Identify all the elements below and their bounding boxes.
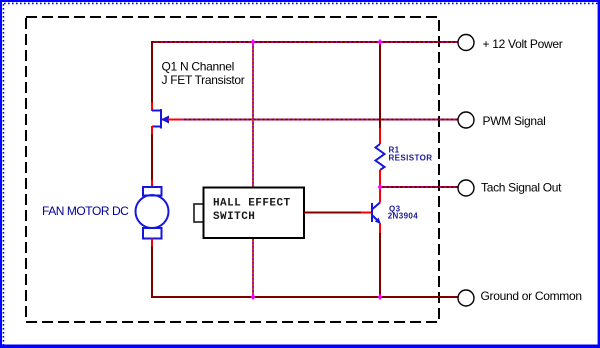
label Q1 N Channel J FET Transistor [162, 60, 245, 88]
junction at ground and middle net [251, 294, 256, 300]
svg-text:PWM Signal: PWM Signal [483, 114, 546, 128]
terminal Tach Signal Out [458, 180, 474, 196]
terminal Ground or Common [458, 290, 474, 306]
svg-text:FAN MOTOR DC: FAN MOTOR DC [42, 204, 129, 218]
wire middle vertical net upper segment [252, 42, 254, 187]
svg-text:2N3904: 2N3904 [388, 212, 419, 221]
wire tach horizontal net [380, 186, 458, 188]
svg-text:Tach Signal Out: Tach Signal Out [481, 181, 562, 195]
svg-text:J FET Transistor: J FET Transistor [162, 73, 245, 87]
label Q3 2N3904 [388, 205, 419, 221]
svg-text:Q1 N Channel: Q1 N Channel [162, 60, 234, 74]
wire middle vertical net lower segment [252, 238, 254, 297]
junction at tach node [378, 184, 383, 190]
svg-text:+ 12 Volt Power: + 12 Volt Power [483, 37, 563, 51]
hall effect switch box U2 [194, 188, 304, 239]
label HALL EFFECT SWITCH [213, 198, 291, 224]
wire left vertical drain segment [151, 41, 153, 111]
wire right vertical from +12V to R1 [379, 41, 381, 144]
junction at +12V and middle net [251, 39, 256, 45]
wire Q3 collector pin [379, 187, 381, 203]
terminal PWM Signal [458, 112, 474, 128]
wire +12V top horizontal net [152, 41, 458, 43]
wire ground bottom horizontal net [152, 296, 458, 298]
wire R1 bottom to tach node [379, 170, 381, 187]
svg-text:HALL EFFECT: HALL EFFECT [213, 198, 291, 210]
wire PWM gate horizontal net [168, 119, 458, 121]
svg-text:SWITCH: SWITCH [213, 211, 255, 223]
wire left vertical source to motor [151, 126, 153, 187]
wire hall output to Q3 base [304, 212, 371, 214]
transistor Q1 JFET symbol [152, 109, 169, 129]
wire motor bottom to ground [151, 239, 153, 299]
fan enclosure dashed outline [26, 17, 439, 322]
wire Q3 emitter to ground [379, 223, 381, 298]
label R1 RESISTOR [389, 146, 433, 163]
transistor Q3 2N3904 [372, 203, 381, 225]
svg-text:Ground or Common: Ground or Common [481, 289, 582, 303]
terminal +12 Volt Power [458, 35, 474, 51]
junction at +12V and R1 net [378, 39, 383, 45]
resistor R1 [376, 144, 385, 170]
motor M1 fan motor symbol [136, 187, 169, 239]
junction at ground and emitter net [378, 294, 383, 300]
svg-text:RESISTOR: RESISTOR [389, 154, 433, 163]
